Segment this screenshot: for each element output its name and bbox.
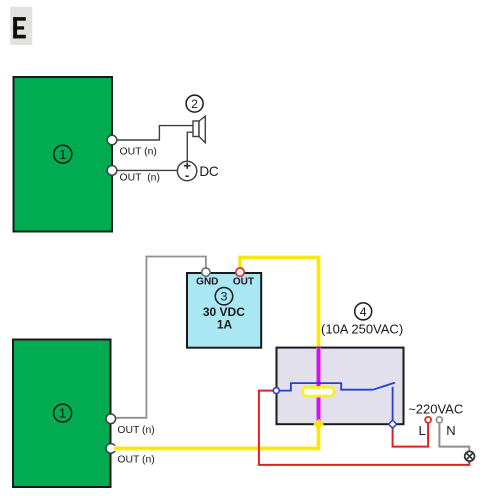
terminal N [436, 417, 442, 423]
svg-text:~220VAC: ~220VAC [408, 401, 463, 416]
wire: top OUT to speaker [112, 126, 193, 140]
svg-text:(10A 250VAC): (10A 250VAC) [321, 322, 403, 337]
relay box 4 [277, 348, 404, 425]
svg-text:OUT: OUT [233, 277, 254, 288]
yellow wire: bottom device OUT to relay bottom [114, 424, 319, 448]
node: relay NO bottom (blue diamond) [389, 420, 397, 428]
device 1 (bottom green box) [13, 340, 111, 488]
svg-text:GND: GND [196, 277, 218, 288]
terminal OUT (n) top (bottom device) [106, 414, 116, 424]
magenta wire through relay [316, 348, 321, 425]
section label E [10, 7, 32, 45]
node: yellow junction at relay bottom [314, 420, 322, 428]
yellow wire: PSU OUT to relay top [240, 258, 319, 348]
label 3 circled [215, 288, 232, 305]
wire: bottom OUT to DC source [112, 169, 177, 171]
svg-text:L: L [419, 423, 426, 438]
speaker SP [193, 116, 205, 143]
label 1 circled (top device) [54, 145, 72, 163]
svg-text:OUT (n): OUT (n) [120, 173, 160, 184]
terminal OUT (n) bottom (bottom device) [106, 444, 116, 454]
terminal OUT (PSU) [236, 268, 244, 276]
terminal OUT (n) top (top device) [107, 135, 117, 145]
terminal OUT (n) bottom (top device) [107, 166, 117, 176]
red wire: relay common to lamp [259, 391, 469, 465]
DC source [177, 161, 196, 180]
svg-text:N: N [446, 423, 455, 438]
label 1 circled (bottom device) [54, 404, 72, 422]
svg-text:DC: DC [199, 164, 219, 179]
terminal L [425, 417, 431, 423]
power supply box 3 [187, 273, 261, 348]
node: relay common (left, blue circle) [273, 388, 279, 394]
red wire: relay NO contact to L terminal [393, 423, 429, 447]
lamp [465, 451, 475, 461]
svg-text:1: 1 [59, 147, 66, 162]
terminal GND (PSU) [202, 268, 210, 276]
svg-text:OUT (n): OUT (n) [120, 147, 157, 158]
label 2 circled (speaker) [186, 95, 203, 112]
svg-text:1A: 1A [217, 318, 233, 332]
svg-text:1: 1 [59, 406, 66, 421]
relay contact (blue) [276, 383, 395, 425]
svg-text:4: 4 [360, 305, 367, 319]
gray wire: N terminal to lamp [439, 423, 469, 452]
device 1 (top green box) [14, 77, 113, 232]
coil highlight (yellow rectangle) [303, 387, 334, 396]
wire: speaker stub down to DC source [187, 132, 193, 161]
svg-text:2: 2 [191, 97, 198, 111]
gray wire: bottom device OUT to PSU GND [114, 257, 206, 418]
svg-text:OUT (n): OUT (n) [117, 455, 154, 466]
svg-text:3: 3 [221, 290, 228, 304]
svg-text:OUT (n): OUT (n) [117, 425, 154, 436]
label 4 circled (relay) [355, 303, 372, 320]
